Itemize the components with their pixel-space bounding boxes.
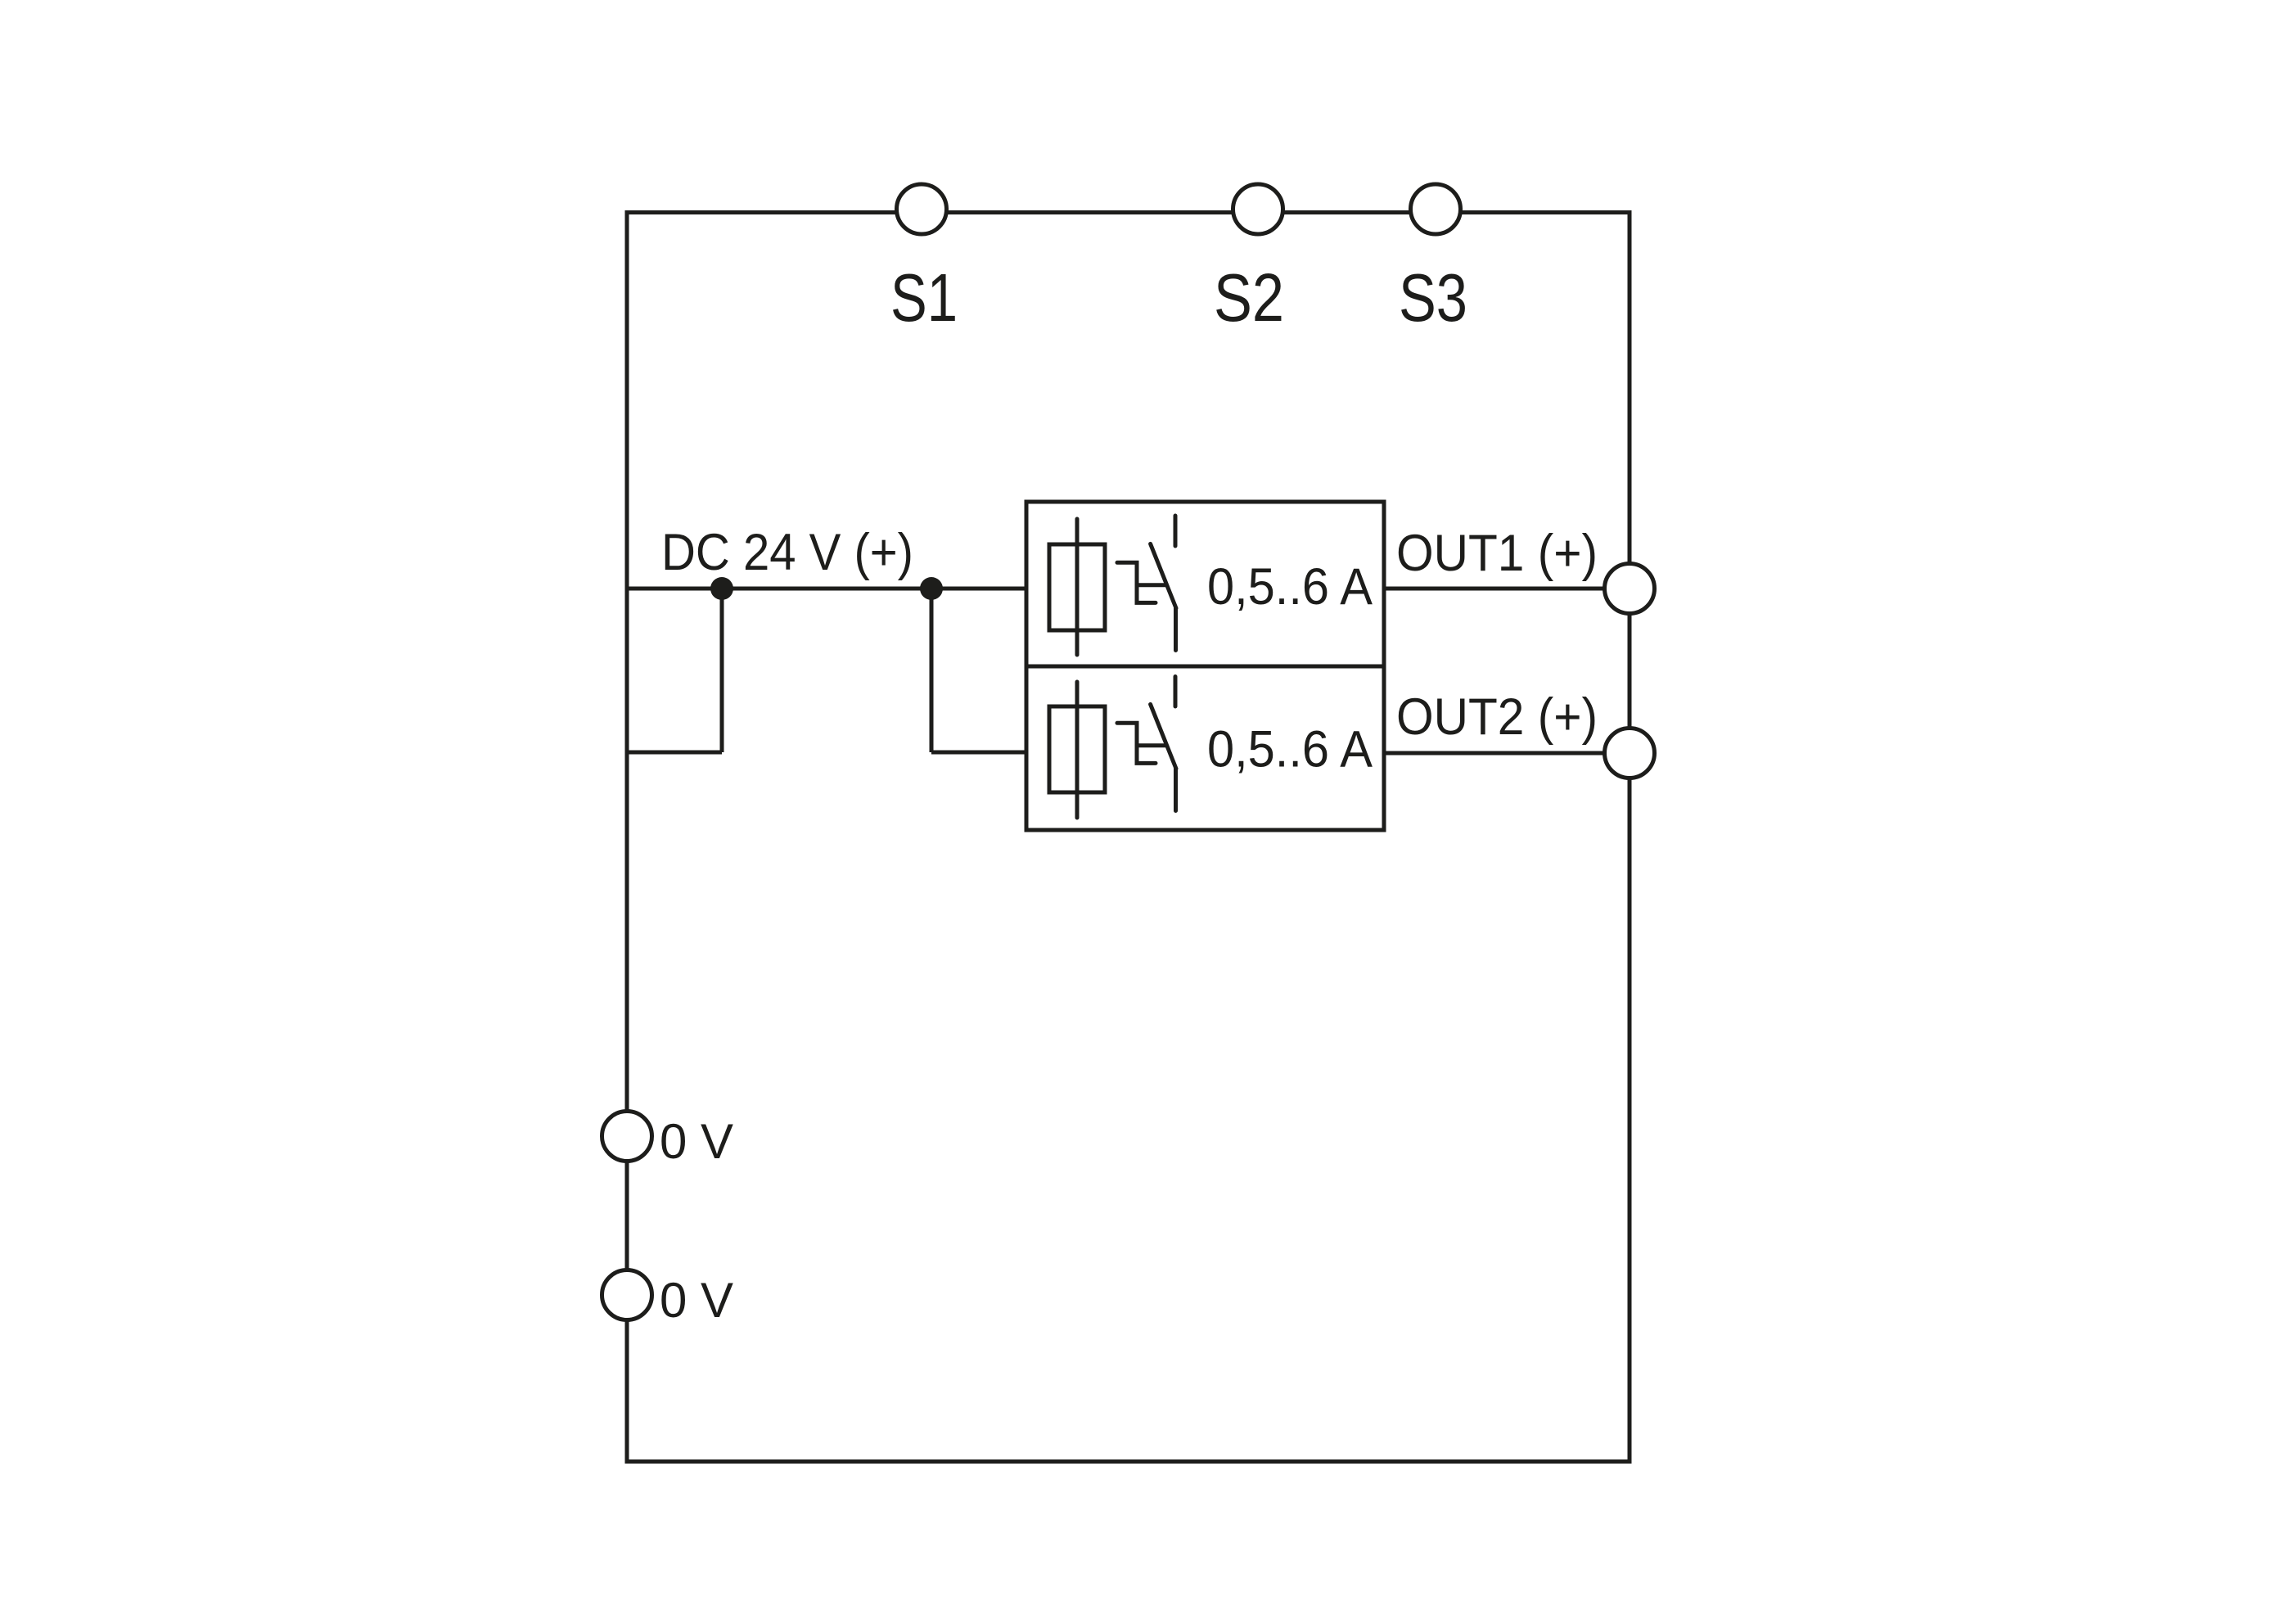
terminal OUT2 xyxy=(1605,729,1655,778)
fuse F1 xyxy=(1049,519,1105,655)
breaker module box U1 xyxy=(1026,502,1384,830)
wire branch 1 vertical xyxy=(720,589,724,752)
wire OUT1 xyxy=(1384,587,1604,591)
svg-text:OUT1 (+): OUT1 (+) xyxy=(1396,525,1598,582)
svg-text:S3: S3 xyxy=(1399,259,1467,336)
breaker contact S (channel 1) xyxy=(1117,516,1176,651)
breaker contact S (channel 2) xyxy=(1117,677,1176,811)
junction node A xyxy=(710,577,733,600)
junction node B xyxy=(920,577,943,600)
svg-text:DC 24 V (+): DC 24 V (+) xyxy=(661,524,913,581)
svg-text:S2: S2 xyxy=(1214,259,1284,336)
svg-text:S1: S1 xyxy=(890,259,958,336)
terminal OUT1 xyxy=(1605,564,1655,614)
fuse F2 xyxy=(1049,682,1105,818)
svg-text:0 V: 0 V xyxy=(660,1114,733,1169)
wire OUT2 xyxy=(1384,751,1604,756)
terminal S2 xyxy=(1233,184,1283,234)
terminal S3 xyxy=(1411,184,1461,234)
terminal 0V upper xyxy=(602,1112,652,1162)
terminal S1 xyxy=(897,184,947,234)
svg-text:OUT2 (+): OUT2 (+) xyxy=(1396,688,1598,746)
wire branch 2 vertical xyxy=(930,589,934,752)
wire DC 24 V bus xyxy=(627,587,1026,591)
wire outer loop xyxy=(627,213,1630,1462)
svg-text:0,5..6 A: 0,5..6 A xyxy=(1207,721,1373,778)
wire branch 1 return to 0V rail xyxy=(627,751,722,755)
wire branch 2 to breaker input xyxy=(931,751,1026,755)
svg-text:0,5..6 A: 0,5..6 A xyxy=(1207,558,1373,616)
breaker module divider xyxy=(1026,665,1384,669)
svg-text:0 V: 0 V xyxy=(660,1273,733,1328)
terminal 0V lower xyxy=(602,1270,652,1320)
